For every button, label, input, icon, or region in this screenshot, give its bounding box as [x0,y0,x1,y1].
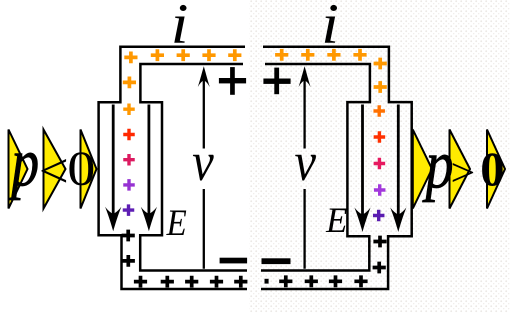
terminal minus sign (right circuit) [262,258,291,264]
terminal minus sign (left circuit) [220,258,248,264]
wire: left circuit outer contour [99,47,247,289]
svg-text:p: p [8,124,40,201]
wire: left circuit inner contour [140,64,247,271]
black charges in left bottom wire [134,276,248,288]
label p<0 [8,124,40,201]
terminal plus sign (left circuit) [219,67,246,95]
power-flow triangle right 3 [487,130,505,209]
E-field arrow right element, right shaft [390,105,406,233]
svg-text:i: i [321,0,339,56]
E-field arrow left element, right shaft [141,105,157,232]
label E (right) [325,200,347,239]
label v (left) [192,132,213,193]
orange charges in right top wire [275,49,387,93]
svg-text:0: 0 [67,142,95,196]
orange charges in left top wire [123,49,242,88]
E-field arrow left element, left shaft [105,105,121,232]
svg-text:v: v [294,132,315,193]
svg-text:E: E [166,202,187,243]
colored charges inside right element [373,105,385,117]
svg-text:E: E [325,200,347,239]
label i (right) [321,0,339,56]
svg-text:<: < [35,144,71,198]
black charges in right bottom wire [279,275,367,287]
wire: right circuit inner contour [261,64,370,271]
power-flow triangle right 1 [413,130,432,209]
svg-text:v: v [192,132,213,193]
label i (left) [171,0,189,56]
label E (left) [166,202,187,243]
black charge fragment at right bottom wire opening [265,279,269,284]
svg-text:0: 0 [480,143,504,196]
power-flow triangle right 2 [450,130,471,209]
voltage arrow v (left circuit) [198,66,210,269]
label v (right) [294,132,315,193]
power-flow triangle left 3 [81,130,97,209]
svg-text:i: i [171,0,189,56]
E-field arrow right element, left shaft [354,105,370,233]
voltage arrow v (right circuit) [299,66,311,269]
background dot texture (right half) [249,0,510,313]
colored charges inside left element [123,103,135,115]
svg-text:>: > [448,151,478,195]
terminal plus sign (right circuit) [263,68,290,95]
wire: right circuit outer contour [261,47,412,289]
label p>0 [422,126,454,203]
power-flow triangle left 2 [44,130,66,209]
power-flow triangle left 1 [9,130,28,209]
black charges at left element bottom [122,230,135,267]
black charges at right element bottom [373,236,387,274]
